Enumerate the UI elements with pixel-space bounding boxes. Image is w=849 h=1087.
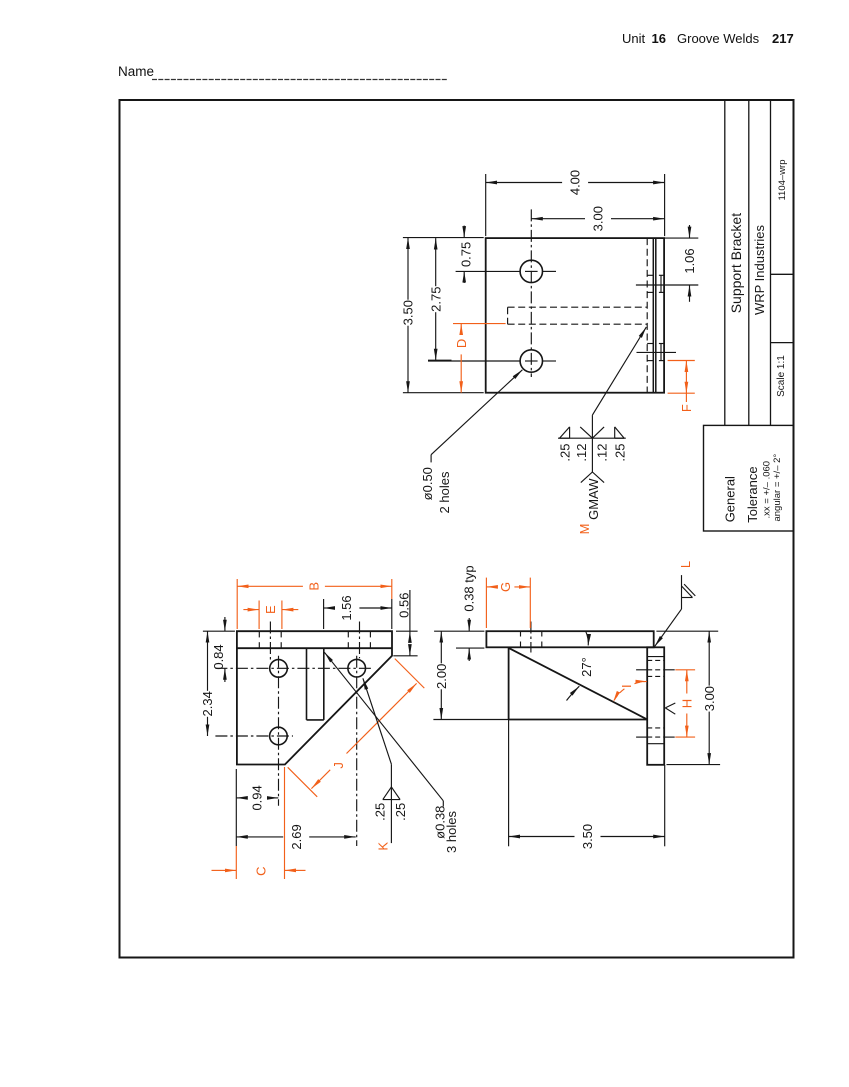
V2 hole T2 (348, 659, 366, 677)
V2 outline (237, 631, 392, 764)
svg-text:217: 217 (772, 31, 794, 46)
svg-text:.12: .12 (574, 444, 589, 462)
svg-text:K: K (376, 842, 391, 851)
svg-text:.25: .25 (393, 803, 408, 821)
dim 0.94 (235, 769, 237, 846)
dim 0.75 (463, 226, 465, 238)
leader 0.50 2 holes (431, 370, 522, 455)
weld symbol GMAW (592, 327, 646, 415)
svg-text:2.75: 2.75 (428, 287, 443, 312)
dim G (485, 578, 487, 628)
svg-text:3 holes: 3 holes (444, 811, 459, 853)
svg-text:2.69: 2.69 (289, 824, 304, 849)
V1 vertical centerline (530, 209, 532, 377)
dim 1.06 (664, 237, 698, 239)
svg-text:3.00: 3.00 (702, 686, 717, 711)
dim 2.34 (207, 631, 209, 691)
svg-text:0.56: 0.56 (397, 593, 412, 618)
V1 hidden slot (508, 306, 648, 308)
V3 back plate slot hidden marks top (647, 656, 664, 658)
svg-text:L: L (678, 561, 693, 568)
V1 upper extension line 1.06 (636, 284, 698, 286)
svg-text:4.00: 4.00 (568, 170, 583, 195)
dim J (395, 659, 425, 689)
V1 hole 1 (520, 260, 542, 282)
dim 3.00 (531, 218, 585, 220)
svg-text:Groove Welds: Groove Welds (677, 31, 760, 46)
dim B (236, 579, 238, 629)
V2 horizontal centerline row 1 (215, 667, 371, 669)
dim E (258, 601, 260, 630)
V3 back plate slot hidden marks bottom (647, 727, 664, 729)
V3 gusset (508, 647, 510, 719)
svg-text:16: 16 (652, 31, 666, 46)
svg-text:.25: .25 (613, 444, 628, 462)
dim 2.00 (434, 630, 484, 632)
svg-text:Name: Name (118, 64, 154, 79)
dim 2.69 (236, 836, 283, 838)
V2 strip hole marks T1 (258, 631, 260, 637)
V1 outline rect (486, 238, 664, 393)
svg-text:3.00: 3.00 (591, 206, 606, 231)
svg-text:0.84: 0.84 (211, 644, 226, 669)
svg-text:ø0.50: ø0.50 (420, 467, 435, 500)
V2 top plate bottom edge (237, 647, 392, 649)
svg-text:C: C (254, 867, 269, 876)
svg-text:0.38 typ: 0.38 typ (461, 565, 476, 611)
V2 left extension top edge (203, 630, 235, 632)
V1 lower extension line (637, 351, 677, 353)
V1 inner solid lines (652, 238, 654, 393)
svg-text:Unit: Unit (622, 31, 646, 46)
weld symbol K (363, 678, 392, 764)
V2 hole T1 (270, 660, 288, 678)
svg-text:J: J (331, 762, 346, 769)
dim 3.00 (656, 630, 718, 632)
svg-text:1.56: 1.56 (339, 595, 354, 620)
dim 1.56 (323, 599, 325, 629)
svg-text:2.00: 2.00 (434, 664, 449, 689)
V1 hidden line back plate face (646, 238, 648, 393)
V2 centerline through T1 and B (278, 656, 280, 806)
svg-text:F: F (679, 404, 694, 412)
dim F (668, 360, 695, 362)
svg-text:Tolerance: Tolerance (745, 466, 760, 522)
V1 hole1 horizontal centerline (456, 270, 520, 272)
svg-text:WRP Industries: WRP Industries (752, 224, 767, 315)
V1 hole2 horizontal centerline (428, 360, 520, 362)
V3 back plate (647, 647, 664, 765)
general tolerance box (704, 425, 794, 531)
dim C (235, 846, 237, 879)
svg-text:0.94: 0.94 (250, 785, 265, 810)
svg-text:2 holes: 2 holes (437, 471, 452, 513)
svg-text:Scale 1:1: Scale 1:1 (776, 355, 787, 397)
svg-text:1104–wrp: 1104–wrp (777, 159, 788, 200)
V1 hole 2 (520, 350, 542, 372)
V2 slot (306, 648, 308, 720)
title block lines (724, 100, 726, 425)
svg-text:B: B (306, 582, 321, 591)
dim H (675, 669, 695, 671)
svg-text:3.50: 3.50 (401, 300, 416, 325)
V1 groove tick marks upper (647, 274, 653, 276)
svg-text:M: M (577, 524, 592, 535)
dim 2.75 (428, 359, 452, 361)
V3 top plate (486, 631, 653, 647)
V2 strip hole marks T2 (347, 631, 349, 637)
dim 3.50 (508, 720, 510, 847)
V2 hole B (270, 727, 288, 745)
dim 0.84 (224, 617, 226, 631)
svg-text:GMAW: GMAW (586, 478, 601, 520)
svg-text:G: G (498, 582, 513, 592)
open arrow mark (665, 703, 675, 708)
drawing border frame (120, 100, 794, 958)
svg-text:I: I (619, 684, 634, 688)
V2 centerline through T2 (356, 656, 358, 846)
dim 4.00 (485, 174, 487, 236)
V2 horizontal centerline hole B (215, 735, 293, 737)
svg-text:1.06: 1.06 (682, 248, 697, 273)
svg-text:3.50: 3.50 (580, 824, 595, 849)
svg-text:angular = +/– 2°: angular = +/– 2° (772, 454, 783, 522)
dim 3.50 (403, 237, 484, 239)
svg-text:0.75: 0.75 (459, 242, 474, 267)
svg-text:Support Bracket: Support Bracket (728, 213, 744, 313)
svg-text:General: General (722, 476, 737, 522)
svg-text:.25: .25 (557, 444, 572, 462)
leader 0.38 3 holes (324, 652, 443, 801)
dim D (453, 323, 506, 325)
svg-text:.xx = +/– .060: .xx = +/– .060 (761, 461, 772, 519)
svg-text:27°: 27° (579, 657, 594, 677)
svg-text:D: D (454, 339, 469, 348)
svg-text:2.34: 2.34 (200, 691, 215, 716)
dim I (635, 681, 647, 683)
dim 0.38 typ (456, 647, 484, 649)
svg-text:H: H (679, 699, 694, 708)
dim 0.56 (396, 630, 418, 632)
V1 groove tick marks lower (647, 343, 653, 345)
svg-text:.25: .25 (372, 803, 387, 821)
svg-text:E: E (263, 605, 278, 614)
V3 strip hole marks (520, 631, 522, 636)
svg-text:.12: .12 (595, 444, 610, 462)
